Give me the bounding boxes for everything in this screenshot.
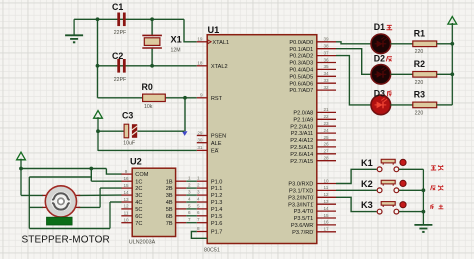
wire motor right-upper to 3C <box>79 194 122 196</box>
svg-text:EA: EA <box>211 149 219 155</box>
wire COM jog <box>106 169 121 175</box>
svg-text:P3.4/T0: P3.4/T0 <box>294 209 314 215</box>
svg-text:5: 5 <box>197 203 200 208</box>
ground (buttons) <box>414 225 432 232</box>
svg-text:P0.7/AD7: P0.7/AD7 <box>289 88 313 94</box>
svg-text:5B: 5B <box>166 207 173 213</box>
crystal X1 <box>142 35 162 48</box>
svg-text:XTAL1: XTAL1 <box>212 40 229 46</box>
wire D3 to R3 <box>391 104 413 106</box>
svg-text:23: 23 <box>324 121 330 126</box>
U2 chip body ULN2003A <box>132 168 175 236</box>
svg-text:2C: 2C <box>135 186 142 192</box>
svg-text:P3.7/RD: P3.7/RD <box>292 230 313 236</box>
svg-text:P0.3/AD3: P0.3/AD3 <box>289 61 313 67</box>
svg-text:4: 4 <box>197 196 200 201</box>
svg-text:C3: C3 <box>122 111 133 121</box>
ground (crystal section) <box>65 19 83 42</box>
svg-text:7C: 7C <box>135 221 142 227</box>
wire crystal top lead <box>151 19 153 35</box>
svg-text:32: 32 <box>324 85 330 90</box>
wire K3 to ground rail <box>399 211 423 213</box>
svg-text:14: 14 <box>324 206 330 211</box>
svg-text:12: 12 <box>324 192 330 197</box>
svg-text:3C: 3C <box>135 193 142 199</box>
svg-text:P0.5/AD5: P0.5/AD5 <box>289 74 313 80</box>
power terminal (reset section) <box>94 111 103 151</box>
svg-text:36: 36 <box>324 57 330 62</box>
label D1 chinese zheng <box>386 25 392 29</box>
pushbutton K1 <box>377 159 406 171</box>
svg-text:C2: C2 <box>112 51 123 61</box>
svg-text:21: 21 <box>324 107 330 112</box>
U1 left pin stubs and numbers <box>197 37 207 232</box>
svg-text:2: 2 <box>197 183 200 188</box>
svg-text:220: 220 <box>415 80 424 86</box>
wire 1C row <box>91 180 121 182</box>
svg-text:16: 16 <box>324 220 330 225</box>
svg-text:P3.5/T1: P3.5/T1 <box>294 216 314 222</box>
svg-text:220: 220 <box>415 49 424 55</box>
svg-text:P1.0: P1.0 <box>211 179 223 185</box>
svg-text:1: 1 <box>197 176 200 181</box>
svg-text:220: 220 <box>415 110 424 116</box>
svg-text:PSEN: PSEN <box>211 134 226 140</box>
capacitor C3 (electrolytic) <box>124 124 137 138</box>
wire 4C row <box>110 201 122 203</box>
svg-text:P1.6: P1.6 <box>211 221 223 227</box>
svg-text:10: 10 <box>123 218 129 223</box>
wire P3.1 to K2 <box>336 189 377 191</box>
svg-text:4: 4 <box>188 196 191 201</box>
label R1 <box>414 28 425 38</box>
wire RST row <box>98 96 197 100</box>
svg-text:31: 31 <box>197 145 203 150</box>
blue marker near PSEN <box>182 131 188 136</box>
svg-text:38: 38 <box>324 44 330 49</box>
label D3 <box>374 88 385 98</box>
svg-text:7: 7 <box>188 217 191 222</box>
label U1 <box>208 25 220 35</box>
label tingzhi (stop) <box>431 205 444 209</box>
svg-text:33: 33 <box>324 78 330 83</box>
wire R3 to rail <box>437 104 453 106</box>
svg-text:P3.3/INT1: P3.3/INT1 <box>288 202 313 208</box>
value C1 22PF <box>114 30 126 36</box>
wire C3 to junction <box>137 130 184 132</box>
wire P0.0 to D1 <box>336 42 371 44</box>
svg-text:R3: R3 <box>414 90 425 100</box>
label X1 <box>171 35 182 45</box>
svg-text:COM: COM <box>135 172 148 178</box>
svg-text:26: 26 <box>324 142 330 147</box>
label zhengzhuan (forward) <box>431 165 444 170</box>
svg-text:11: 11 <box>124 211 129 216</box>
wire K1 to ground rail <box>399 168 423 170</box>
svg-text:7: 7 <box>197 217 200 222</box>
svg-text:22: 22 <box>324 114 330 119</box>
wire D1 to R1 <box>391 43 413 45</box>
label 80C51 <box>204 248 220 254</box>
label R0 <box>142 82 153 92</box>
wire C3 row <box>96 129 124 133</box>
svg-text:9: 9 <box>200 93 203 98</box>
value X1 12M <box>171 48 181 54</box>
resistor R2 <box>413 72 437 78</box>
capacitor C2 <box>117 59 125 73</box>
value R3 220 <box>415 110 424 116</box>
svg-text:4C: 4C <box>135 200 142 206</box>
svg-text:ULN2003A: ULN2003A <box>129 239 156 245</box>
label C2 <box>112 51 123 61</box>
label fanzhuan (reverse) <box>431 185 444 190</box>
svg-text:P0.1/AD1: P0.1/AD1 <box>289 47 313 53</box>
svg-text:P1.7: P1.7 <box>211 230 223 236</box>
svg-text:P3.0/RXD: P3.0/RXD <box>288 182 313 188</box>
svg-text:ALE: ALE <box>211 141 222 147</box>
svg-text:13: 13 <box>324 199 330 204</box>
svg-text:P1.4: P1.4 <box>211 207 223 213</box>
value C2 22PF <box>114 77 126 83</box>
label K1 <box>361 158 373 168</box>
wire VCC to COM rail <box>19 167 106 171</box>
svg-text:5C: 5C <box>135 207 142 213</box>
label K2 <box>361 179 373 189</box>
wire P1.7 stub <box>191 226 207 238</box>
wire 2C row <box>100 187 121 189</box>
resistor R1 <box>413 41 437 47</box>
svg-text:4B: 4B <box>166 200 173 206</box>
svg-text:P2.4/A12: P2.4/A12 <box>290 138 313 144</box>
LED D2 <box>371 65 391 85</box>
svg-text:RST: RST <box>211 96 223 102</box>
svg-text:X1: X1 <box>171 35 182 45</box>
pushbutton K2 <box>377 180 406 192</box>
svg-text:P3.2/INT0: P3.2/INT0 <box>288 195 313 201</box>
wire over-motor <box>29 177 91 229</box>
svg-text:P0.0/AD0: P0.0/AD0 <box>289 40 313 46</box>
svg-text:R1: R1 <box>414 28 425 38</box>
svg-text:P2.5/A13: P2.5/A13 <box>290 145 313 151</box>
wires U2 1B-7B to U1 P1.0-P1.6 <box>186 176 200 223</box>
svg-text:15: 15 <box>324 213 330 218</box>
svg-text:P0.4/AD4: P0.4/AD4 <box>289 68 313 74</box>
wire P3.2 to K3 <box>336 197 377 211</box>
svg-text:XTAL2: XTAL2 <box>211 64 228 70</box>
svg-text:P2.0/A8: P2.0/A8 <box>293 111 313 117</box>
svg-text:P1.2: P1.2 <box>211 193 223 199</box>
svg-text:P1.1: P1.1 <box>211 186 223 192</box>
svg-text:10: 10 <box>324 178 330 183</box>
wire XTAL1 drop <box>184 19 197 42</box>
power terminal (LED rail) <box>448 17 457 105</box>
wire motor right-lower <box>79 188 101 207</box>
svg-text:R2: R2 <box>414 59 425 69</box>
svg-text:3B: 3B <box>166 193 173 199</box>
U1 left pin names <box>211 40 229 236</box>
stepper motor M1 <box>43 186 81 217</box>
svg-text:D2: D2 <box>374 54 385 64</box>
svg-text:25: 25 <box>324 135 330 140</box>
svg-text:37: 37 <box>324 50 330 55</box>
svg-text:6C: 6C <box>135 214 142 220</box>
svg-text:P3.6/WR: P3.6/WR <box>291 223 313 229</box>
motor base block <box>47 217 73 225</box>
svg-text:14: 14 <box>123 190 129 195</box>
svg-text:P3.1/TXD: P3.1/TXD <box>289 189 313 195</box>
svg-text:U1: U1 <box>208 25 220 35</box>
svg-text:1: 1 <box>188 176 191 181</box>
U1 chip body 80C51 <box>207 35 317 244</box>
svg-text:34: 34 <box>324 71 330 76</box>
wire left ground rail <box>97 19 99 98</box>
svg-text:19: 19 <box>197 37 203 42</box>
svg-text:6: 6 <box>188 210 191 215</box>
svg-text:3: 3 <box>197 190 200 195</box>
svg-text:U2: U2 <box>130 156 142 166</box>
svg-text:10uF: 10uF <box>123 141 135 147</box>
wire R2 to rail <box>437 73 453 75</box>
svg-text:P2.1/A9: P2.1/A9 <box>293 117 313 123</box>
svg-text:STEPPER-MOTOR: STEPPER-MOTOR <box>22 235 110 246</box>
svg-text:K3: K3 <box>361 200 373 210</box>
svg-text:12M: 12M <box>171 48 181 54</box>
LED D1 <box>371 34 391 54</box>
wire P0.1 to D2 <box>336 49 371 75</box>
label ULN2003A <box>129 239 156 245</box>
wire P0.2 to D3 <box>336 56 371 105</box>
resistor R3 <box>413 102 437 108</box>
svg-text:17: 17 <box>324 227 330 232</box>
svg-text:8: 8 <box>197 226 200 231</box>
wire C2 row <box>96 64 197 68</box>
svg-text:D3: D3 <box>374 88 385 98</box>
wire EA row <box>98 149 197 151</box>
svg-text:15: 15 <box>123 183 129 188</box>
wire motor left-lower <box>29 206 43 208</box>
svg-text:P2.7/A15: P2.7/A15 <box>290 159 313 165</box>
U2 left pins COM 1C-7C <box>121 169 148 227</box>
svg-text:P2.6/A14: P2.6/A14 <box>290 152 313 158</box>
U1 right pin names <box>288 40 313 236</box>
svg-text:R0: R0 <box>142 82 153 92</box>
value R1 220 <box>415 49 424 55</box>
svg-text:C1: C1 <box>112 2 123 12</box>
value C3 10uF <box>123 141 135 147</box>
svg-text:5: 5 <box>188 203 191 208</box>
value R2 220 <box>415 80 424 86</box>
svg-text:P1.5: P1.5 <box>211 214 223 220</box>
capacitor C1 <box>117 13 125 27</box>
ground rail (buttons) <box>422 169 426 225</box>
svg-text:P0.6/AD6: P0.6/AD6 <box>289 81 313 87</box>
U1 right pin stubs and numbers <box>317 37 336 232</box>
wire D2 to R2 <box>391 73 413 75</box>
value R0 10k <box>144 104 153 110</box>
svg-text:27: 27 <box>324 149 330 154</box>
U2 right pins 1B-7B <box>166 179 187 227</box>
svg-text:D1: D1 <box>374 22 385 32</box>
power terminal (motor section) <box>17 152 26 195</box>
resistor R0 <box>143 94 166 101</box>
svg-text:24: 24 <box>324 128 330 133</box>
svg-text:6B: 6B <box>166 214 173 220</box>
svg-text:6: 6 <box>197 210 200 215</box>
svg-text:13: 13 <box>123 197 129 202</box>
wire R1 to rail <box>437 43 453 45</box>
label STEPPER-MOTOR <box>22 235 110 246</box>
svg-text:3: 3 <box>188 190 191 195</box>
svg-text:P0.2/AD2: P0.2/AD2 <box>289 54 313 60</box>
U1 XTAL1 clock arrow <box>208 40 211 44</box>
svg-text:10k: 10k <box>144 104 153 110</box>
label K3 <box>361 200 373 210</box>
wire K2 to ground rail <box>399 189 423 191</box>
svg-text:2: 2 <box>188 183 191 188</box>
pushbutton K3 <box>377 202 406 214</box>
wire P3.0 to K1 <box>336 169 377 183</box>
svg-text:9: 9 <box>125 169 128 174</box>
LED D3 <box>371 95 391 115</box>
svg-text:7B: 7B <box>166 221 173 227</box>
svg-text:11: 11 <box>324 185 329 190</box>
wire C1 top rail <box>74 17 184 21</box>
label C1 <box>112 2 123 12</box>
label R2 <box>414 59 425 69</box>
label D3 chinese ting <box>388 91 392 97</box>
svg-text:K1: K1 <box>361 158 373 168</box>
label D1 <box>374 22 385 32</box>
svg-text:39: 39 <box>324 37 330 42</box>
svg-text:22PF: 22PF <box>114 30 126 36</box>
wire RST to C3 drop <box>184 98 186 131</box>
svg-text:28: 28 <box>324 156 330 161</box>
svg-text:80C51: 80C51 <box>204 248 220 254</box>
svg-text:35: 35 <box>324 64 330 69</box>
wire bottom route <box>29 202 110 229</box>
svg-text:1B: 1B <box>166 179 173 185</box>
svg-text:P1.3: P1.3 <box>211 200 223 206</box>
label R3 <box>414 90 425 100</box>
svg-text:29: 29 <box>197 130 203 135</box>
label C3 <box>122 111 133 121</box>
svg-text:P2.2/A10: P2.2/A10 <box>290 124 313 130</box>
svg-text:12: 12 <box>123 204 129 209</box>
svg-text:1C: 1C <box>135 179 142 185</box>
svg-text:18: 18 <box>197 61 203 66</box>
wire motor left-upper <box>21 194 43 196</box>
label D2 chinese fan <box>386 57 392 62</box>
label U2 <box>130 156 142 166</box>
svg-text:2B: 2B <box>166 186 173 192</box>
svg-text:K2: K2 <box>361 179 373 189</box>
wire crystal bottom lead <box>151 49 153 66</box>
wire 1C drop <box>90 169 92 182</box>
svg-text:22PF: 22PF <box>114 77 126 83</box>
svg-text:P2.3/A11: P2.3/A11 <box>291 131 314 137</box>
svg-text:30: 30 <box>197 138 203 143</box>
label D2 <box>374 54 385 64</box>
svg-text:16: 16 <box>123 176 129 181</box>
